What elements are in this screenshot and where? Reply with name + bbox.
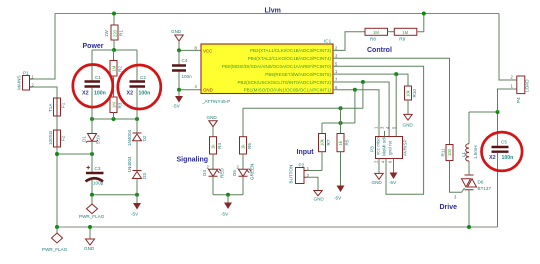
wire P2 pin1 to R7 bbox=[307, 170, 323, 172]
svg-text:vcc miso: vcc miso bbox=[376, 137, 381, 155]
svg-text:BUTTON: BUTTON bbox=[289, 165, 294, 184]
svg-text:R6: R6 bbox=[247, 143, 252, 149]
wire P1 pin2 to fuse column bbox=[32, 87, 57, 98]
junction bus x469 bbox=[467, 225, 471, 229]
svg-text:VCC: VCC bbox=[203, 48, 212, 53]
diode D3 1N4004 bbox=[127, 156, 147, 195]
svg-text:gnd rst: gnd rst bbox=[388, 140, 393, 155]
LED D5 GREEN bbox=[232, 154, 255, 195]
wire pin1 PB5 reset row bbox=[333, 74, 408, 86]
svg-text:100: 100 bbox=[447, 148, 452, 156]
svg-text:C4: C4 bbox=[182, 58, 188, 63]
svg-text:F1: F1 bbox=[61, 102, 66, 108]
wire rail B bbox=[322, 122, 355, 124]
svg-text:D3: D3 bbox=[142, 173, 147, 179]
svg-text:X2: X2 bbox=[127, 91, 134, 97]
wire GND pin feed bbox=[179, 89, 201, 91]
ground below R10 bbox=[403, 100, 414, 128]
junction top rail x423.8 bbox=[422, 12, 426, 16]
svg-text:R10: R10 bbox=[412, 89, 417, 98]
wire P3 pin6 to -5V bbox=[393, 159, 395, 173]
svg-text:RED: RED bbox=[220, 168, 225, 178]
power -5V below R5 bbox=[334, 186, 345, 201]
resistor R9 1M bbox=[394, 28, 417, 41]
annotation circle around C5 bbox=[482, 132, 523, 171]
ground below P3 bbox=[372, 173, 384, 185]
svg-text:LOAD: LOAD bbox=[525, 79, 530, 92]
svg-text:PWR_FLAG: PWR_FLAG bbox=[42, 247, 68, 252]
svg-text:R9: R9 bbox=[399, 37, 405, 42]
wire riser to P3 pin5 bbox=[395, 74, 397, 136]
svg-text:GND: GND bbox=[314, 197, 325, 202]
svg-text:100µ: 100µ bbox=[93, 181, 104, 186]
capacitor C1 X2 100n bbox=[82, 50, 106, 119]
svg-text:GND: GND bbox=[403, 123, 414, 128]
resistor R7 10k bbox=[319, 123, 332, 171]
svg-text:-5V: -5V bbox=[221, 212, 229, 217]
resistor R4 1k bbox=[210, 137, 223, 159]
svg-text:GND: GND bbox=[207, 115, 218, 120]
junction rail A x340.5 bbox=[339, 106, 343, 110]
wire LED cathode link bbox=[213, 194, 243, 196]
svg-text:C5: C5 bbox=[501, 140, 507, 145]
power flag below C3 bbox=[79, 195, 105, 219]
svg-text:D1: D1 bbox=[82, 136, 87, 142]
svg-text:R2: R2 bbox=[118, 66, 123, 72]
svg-text:10k: 10k bbox=[320, 138, 325, 146]
svg-text:C1: C1 bbox=[95, 75, 101, 80]
wire P3 pin2 to ground bbox=[378, 159, 380, 174]
svg-text:P4: P4 bbox=[516, 97, 521, 103]
junction x114 y119 bbox=[112, 117, 116, 121]
svg-text:1M: 1M bbox=[112, 102, 117, 108]
junction x179 y89.8 bbox=[177, 88, 181, 92]
svg-text:Llvm: Llvm bbox=[265, 7, 281, 14]
wire riser to rail B bbox=[354, 90, 356, 123]
svg-text:_ATTINY45-P: _ATTINY45-P bbox=[201, 99, 230, 104]
right pin numbers bbox=[335, 46, 338, 91]
svg-text:GND: GND bbox=[203, 88, 213, 93]
svg-text:D4: D4 bbox=[202, 170, 207, 176]
svg-text:100SG: 100SG bbox=[48, 130, 53, 145]
wire R5 to -5V bbox=[340, 152, 342, 186]
svg-text:1N4004: 1N4004 bbox=[127, 129, 132, 146]
svg-text:R8: R8 bbox=[370, 37, 376, 42]
svg-text:D5: D5 bbox=[232, 170, 237, 176]
wire pin7 PB2 row bbox=[333, 82, 389, 137]
connector P3 AVRISP bbox=[370, 126, 408, 163]
annotation circle around C2 bbox=[118, 65, 161, 109]
triac D6 BT137 bbox=[454, 175, 491, 200]
op-amp U1 : IC1 ATTINY45 body bbox=[201, 39, 333, 105]
svg-text:-5V: -5V bbox=[334, 196, 342, 201]
svg-text:100n: 100n bbox=[502, 155, 514, 161]
connector P2 BUTTON bbox=[289, 163, 310, 184]
wire neutral link y154 bbox=[57, 153, 92, 155]
svg-text:-5V: -5V bbox=[389, 180, 397, 185]
svg-text:-5V: -5V bbox=[131, 212, 139, 217]
svg-text:F2: F2 bbox=[61, 135, 66, 141]
svg-text:5.1V: 5.1V bbox=[96, 134, 101, 144]
power -5V below LEDs bbox=[221, 195, 232, 217]
wire F2 down to bus bbox=[56, 147, 58, 227]
svg-text:P2: P2 bbox=[299, 163, 305, 168]
wire riser button rail bbox=[362, 82, 364, 108]
svg-text:PB1(MISO/DO/AIN1/OC0B/OC1A/PCI: PB1(MISO/DO/AIN1/OC0B/OC1A/PCINT1) bbox=[244, 88, 332, 93]
fuse F2 bbox=[48, 130, 66, 147]
svg-text:PB2(SCK/USCK/SCL/T0/INT0/ADC1/: PB2(SCK/USCK/SCL/T0/INT0/ADC1/PCINT2) bbox=[238, 80, 332, 85]
svg-text:PWR_FLAG: PWR_FLAG bbox=[79, 214, 105, 219]
junction x92 y119 bbox=[90, 117, 94, 121]
svg-text:C3: C3 bbox=[95, 166, 101, 171]
power flag at bus bbox=[42, 227, 68, 252]
resistor R11 gate bbox=[440, 145, 453, 161]
svg-text:10k: 10k bbox=[406, 89, 411, 97]
ground above C4 bbox=[171, 29, 183, 50]
wire left riser P1 pin1 to top rail bbox=[32, 14, 55, 80]
svg-text:D6: D6 bbox=[478, 180, 484, 185]
wire bottom bus bbox=[57, 226, 498, 228]
resistor R10 10k bbox=[405, 86, 418, 100]
svg-text:R5: R5 bbox=[345, 139, 350, 145]
wire R8 to R9 bbox=[388, 31, 395, 33]
svg-text:GND: GND bbox=[372, 180, 383, 185]
wire rail A pullup bbox=[243, 107, 363, 109]
resistor R1 220 1W bbox=[104, 14, 124, 51]
annotation circle around C1 bbox=[73, 65, 113, 108]
wire R9 up to top rail bbox=[417, 14, 424, 32]
svg-text:T1A: T1A bbox=[48, 103, 53, 112]
diode D2 1N4004 bbox=[127, 119, 147, 171]
svg-text:PB4(XTAL2/CLKO/OC1B/ADC2/PCINT: PB4(XTAL2/CLKO/OC1B/ADC2/PCINT4) bbox=[248, 56, 332, 61]
svg-text:100n: 100n bbox=[139, 91, 151, 97]
junction reset row x396.2 bbox=[394, 72, 398, 76]
svg-text:D2: D2 bbox=[142, 135, 147, 141]
resistor R8 1M bbox=[365, 28, 388, 41]
svg-text:-5V: -5V bbox=[173, 104, 181, 109]
svg-text:BT137: BT137 bbox=[478, 186, 492, 191]
svg-text:1N4004: 1N4004 bbox=[127, 156, 132, 173]
svg-text:PB0(MOSI/DI/SDA/AIN0/OC0A/OC1A: PB0(MOSI/DI/SDA/AIN0/OC0A/OC1A/AREF/PCIN… bbox=[222, 64, 332, 69]
capacitor C3 100u electrolytic bbox=[86, 154, 104, 195]
svg-text:PB3(XTAL1/CLKI/OC1B/ADC3/PCINT: PB3(XTAL1/CLKI/OC1B/ADC3/PCINT3) bbox=[250, 48, 332, 53]
resistor R3 1M bbox=[110, 97, 123, 119]
junction pb2 row x362.9 bbox=[361, 80, 365, 84]
ground at bus x90 bbox=[84, 225, 95, 251]
ground below P2 bbox=[314, 191, 325, 202]
junction x228 y194.7 bbox=[226, 193, 230, 197]
svg-text:P3: P3 bbox=[370, 146, 375, 152]
zener D1 5.1V bbox=[82, 119, 101, 154]
connector P4 LOAD bbox=[511, 75, 530, 104]
svg-text:Control: Control bbox=[367, 47, 392, 54]
wire R11 to triac gate bbox=[450, 161, 465, 193]
power -5V below D3 bbox=[131, 195, 141, 217]
svg-text:1M: 1M bbox=[112, 65, 117, 71]
junction top rail x114 bbox=[112, 12, 116, 16]
svg-text:PB5(RESET/dW/ADC0/PCINT5): PB5(RESET/dW/ADC0/PCINT5) bbox=[265, 72, 331, 77]
wire VCC feed bbox=[179, 49, 201, 51]
svg-text:1M: 1M bbox=[373, 30, 379, 35]
svg-text:R7: R7 bbox=[326, 139, 331, 145]
svg-text:Drive: Drive bbox=[440, 204, 458, 211]
svg-text:P1: P1 bbox=[23, 71, 29, 76]
resistor R6 1k bbox=[240, 108, 253, 158]
junction bus x57 bbox=[55, 225, 59, 229]
wire triac anode down to bus bbox=[468, 190, 470, 227]
wire top rail live bbox=[55, 13, 499, 15]
LED D4 RED bbox=[202, 154, 225, 195]
wire cap bottom link y119 bbox=[92, 118, 137, 120]
power -5V below P3 bbox=[389, 173, 398, 186]
wire riser R5 column bbox=[340, 108, 342, 133]
junction x136 y119 bbox=[135, 117, 139, 121]
svg-text:MAINS: MAINS bbox=[17, 75, 22, 90]
capacitor C2 X2 100n bbox=[127, 50, 151, 119]
wire pin6 PB1 row bbox=[333, 90, 379, 137]
svg-text:R11: R11 bbox=[440, 148, 445, 157]
fuse F1 T1A bbox=[48, 98, 66, 116]
svg-text:R4: R4 bbox=[217, 143, 222, 149]
svg-text:GREEN: GREEN bbox=[250, 164, 255, 180]
svg-text:L1: L1 bbox=[461, 151, 466, 157]
resistor R5 1k bbox=[337, 134, 350, 152]
wire pin5 PB0 ISP loop bbox=[333, 66, 424, 194]
wire top rail down to P4 pin2 bbox=[499, 14, 517, 81]
junction x57 y154 bbox=[55, 152, 59, 156]
svg-text:R3: R3 bbox=[118, 102, 123, 108]
svg-text:100n: 100n bbox=[182, 74, 193, 79]
junction pb1 row x354.9 bbox=[353, 88, 357, 92]
svg-text:GND: GND bbox=[84, 246, 95, 251]
wire P3 pin3 stub bbox=[384, 131, 386, 137]
junction x138 y194.7 bbox=[135, 193, 139, 197]
junction x114 y50 bbox=[112, 48, 116, 52]
svg-text:Input: Input bbox=[297, 149, 315, 156]
wire pin3 PB4 to gate resistor column bbox=[333, 58, 450, 144]
svg-text:IC1: IC1 bbox=[324, 39, 332, 44]
wire cap top link y50 bbox=[92, 49, 137, 51]
junction x92 y154 bbox=[90, 152, 94, 156]
wire P2 pin2 to ground bbox=[307, 177, 319, 190]
connector P1 MAINS bbox=[17, 71, 35, 91]
svg-text:1M: 1M bbox=[402, 30, 408, 35]
svg-text:X2: X2 bbox=[489, 155, 496, 161]
wire R2 to R3 bbox=[113, 76, 115, 97]
wire y194.7 link bbox=[92, 194, 137, 196]
junction snubber x497.5 y112 bbox=[496, 110, 500, 114]
capacitor C4 100n bbox=[172, 50, 192, 89]
inductor L1 1.5mH bbox=[461, 112, 478, 175]
wire F1 to F2 bbox=[56, 116, 58, 130]
svg-text:1.5mH: 1.5mH bbox=[473, 145, 478, 159]
junction rail B x340.5 bbox=[339, 121, 343, 125]
svg-text:AVRISP: AVRISP bbox=[403, 139, 408, 156]
svg-text:1W: 1W bbox=[104, 29, 109, 37]
svg-text:Signaling: Signaling bbox=[177, 157, 209, 164]
wire P4 pin1 down to snubber junction bbox=[498, 89, 517, 112]
wire snubber rail y112 bbox=[469, 111, 498, 113]
svg-text:X2: X2 bbox=[82, 91, 89, 97]
svg-text:C2: C2 bbox=[140, 75, 146, 80]
svg-text:R1: R1 bbox=[119, 30, 124, 36]
svg-text:Power: Power bbox=[83, 43, 104, 50]
svg-text:100n: 100n bbox=[94, 91, 106, 97]
junction x92 y194.7 bbox=[90, 193, 94, 197]
resistor R2 1M bbox=[110, 50, 123, 76]
wire pin2 PB3 up to resistor chain bbox=[333, 32, 365, 51]
svg-text:GND: GND bbox=[171, 29, 182, 34]
junction x179 y50.4 bbox=[177, 48, 181, 52]
svg-text:220: 220 bbox=[113, 29, 118, 37]
svg-text:MoMI sck: MoMI sck bbox=[382, 136, 387, 156]
power -5V below C4 bbox=[173, 90, 184, 109]
capacitor C5 snubber X2 100n bbox=[489, 112, 513, 227]
ground above R4 bbox=[207, 115, 218, 137]
